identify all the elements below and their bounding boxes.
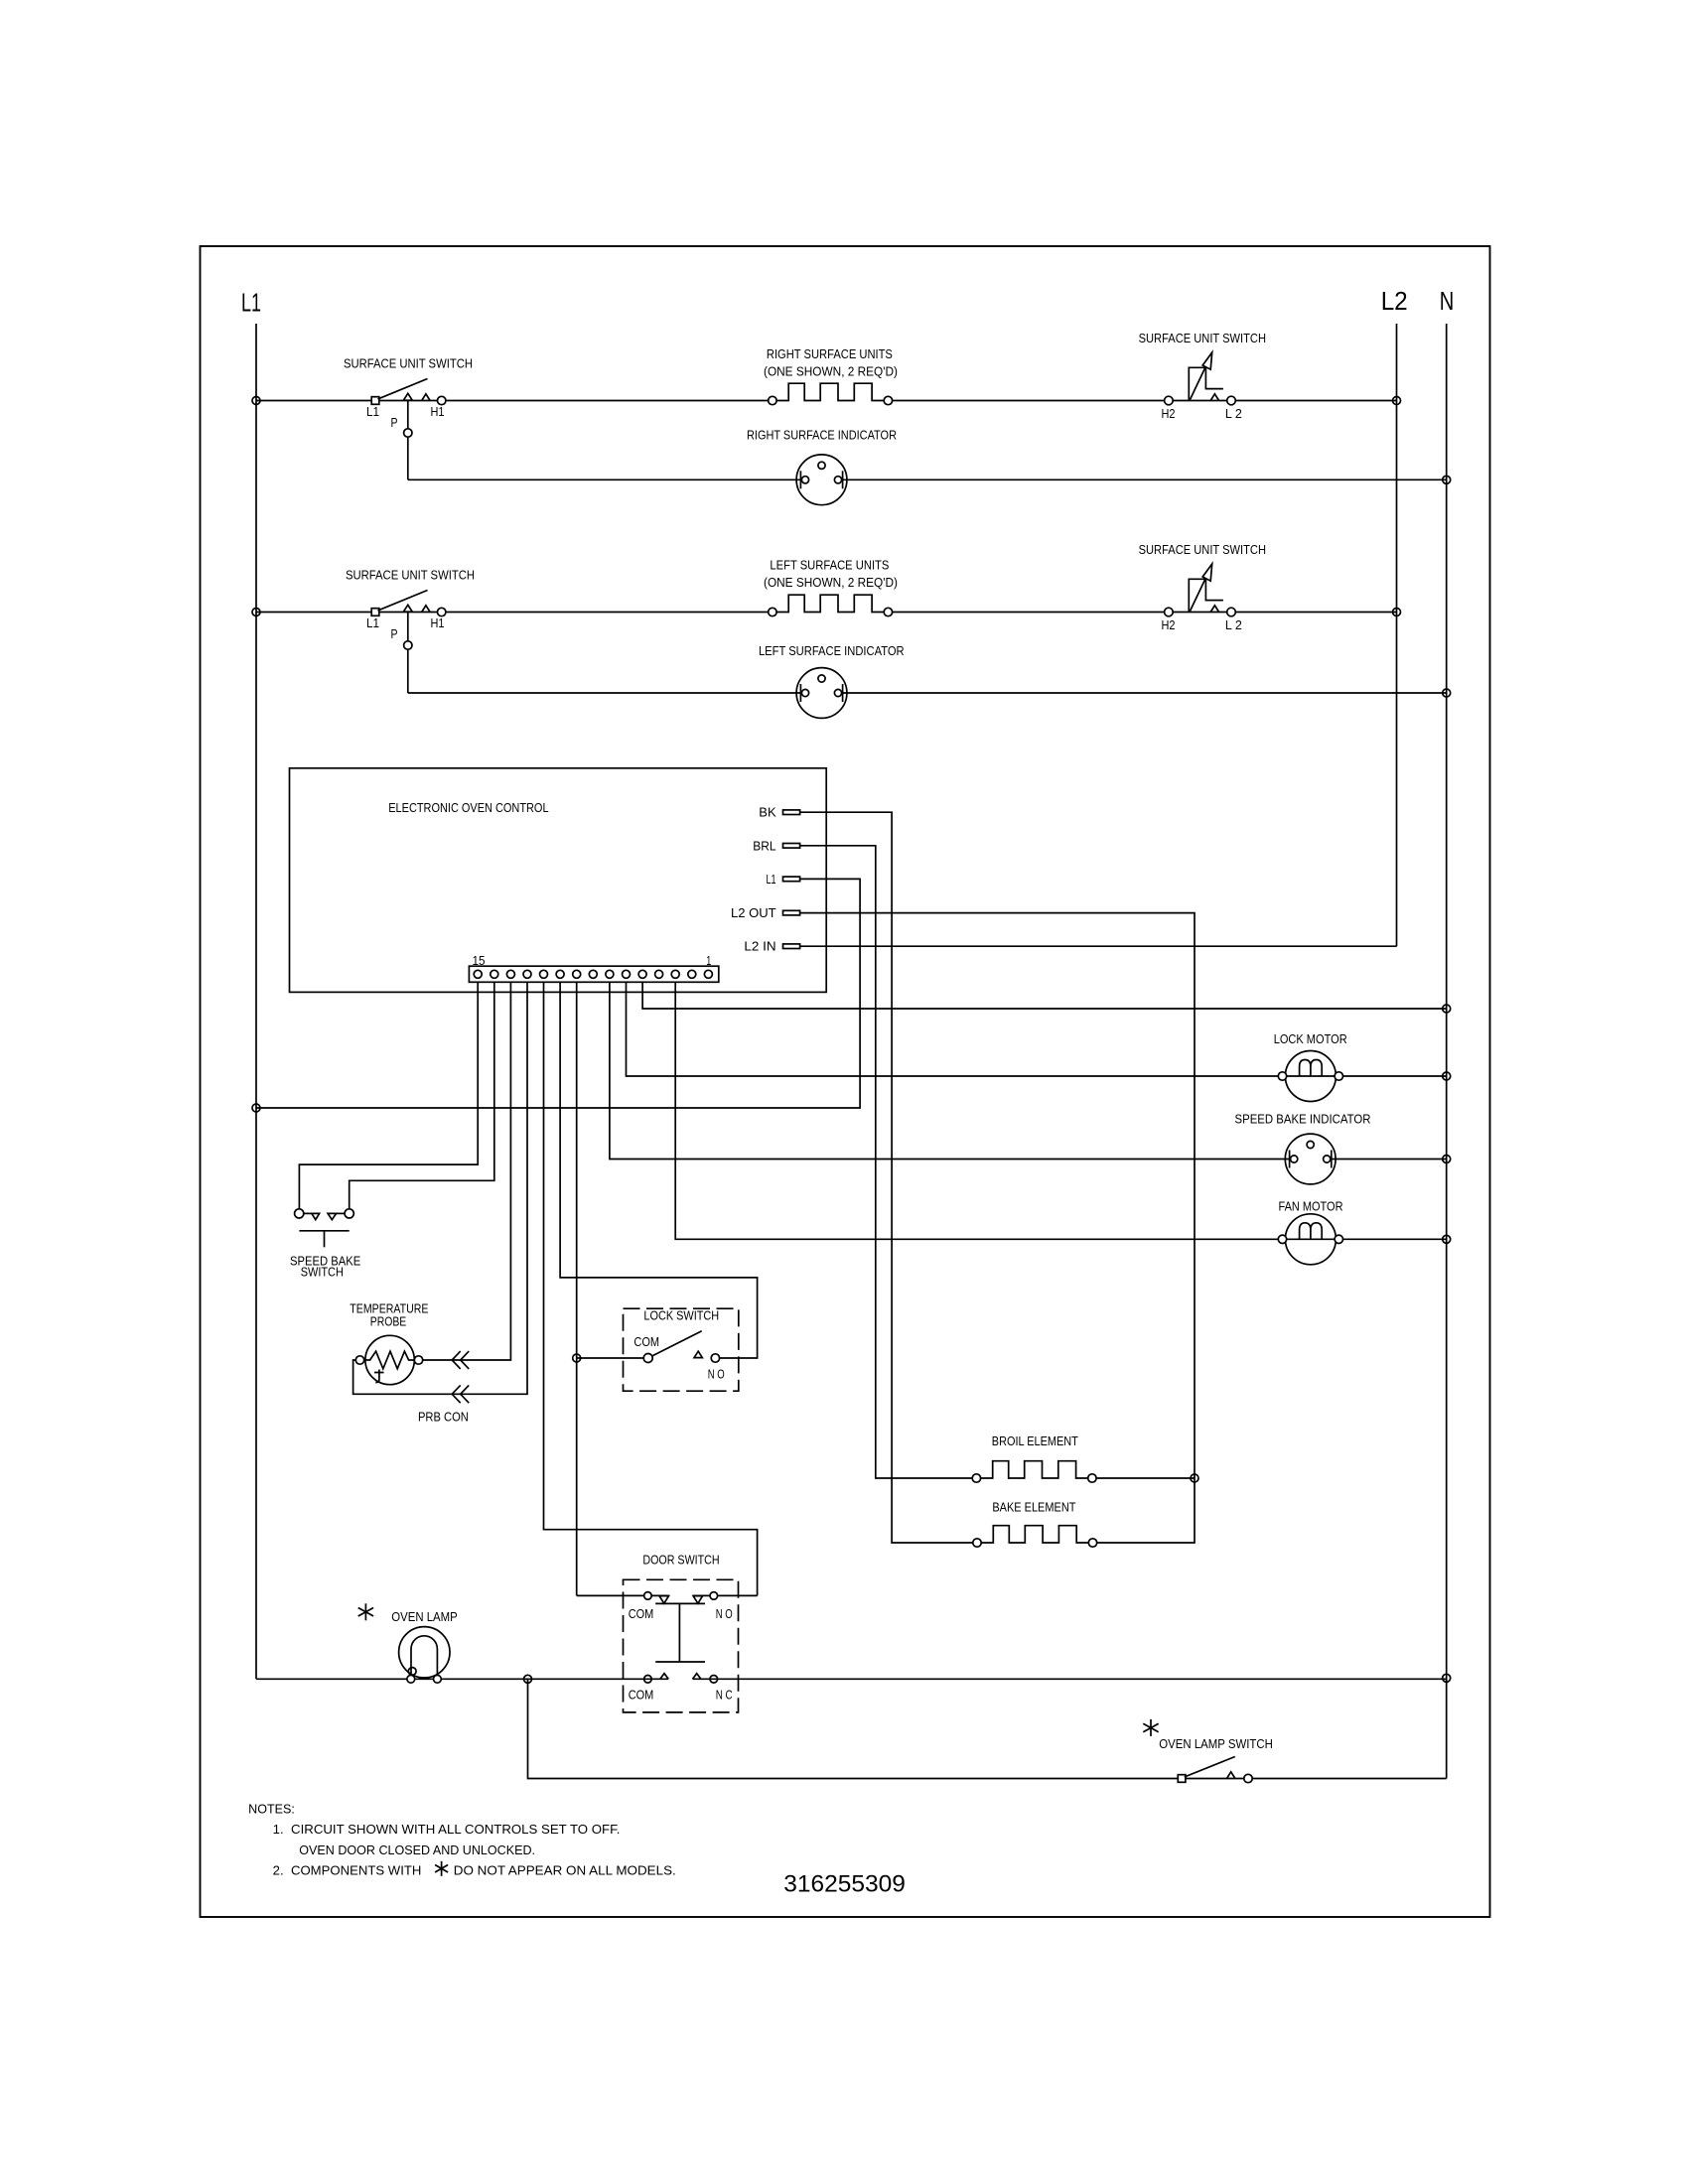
junction row2b-N xyxy=(1443,689,1451,697)
switch S5 speed bake switch terminals xyxy=(295,1209,304,1218)
svg-text:L2: L2 xyxy=(1381,286,1408,316)
wire row1b to indicator xyxy=(408,478,803,480)
svg-text:FAN MOTOR: FAN MOTOR xyxy=(1279,1200,1343,1214)
svg-text:RIGHT SURFACE INDICATOR: RIGHT SURFACE INDICATOR xyxy=(747,428,897,442)
asterisk oven lamp xyxy=(364,1603,366,1620)
resistor bake element xyxy=(981,1526,1088,1543)
svg-text:H1: H1 xyxy=(431,405,445,419)
svg-text:L2 OUT: L2 OUT xyxy=(731,906,776,920)
wire pin10 to lock switch NO xyxy=(560,982,758,1358)
switch S7 bottom contact carets xyxy=(660,1674,668,1680)
wire oven lamp row right xyxy=(693,1678,1447,1680)
junction row1b-N xyxy=(1443,476,1451,483)
terminal tick BRL xyxy=(783,844,800,849)
switch S7 NC terminal xyxy=(710,1676,718,1684)
junction speed bake indicator-N xyxy=(1443,1156,1451,1163)
page border frame xyxy=(201,246,1490,1917)
switch S6 blade xyxy=(652,1331,702,1356)
svg-text:L1: L1 xyxy=(767,873,776,887)
asterisk note 2 xyxy=(441,1861,443,1876)
svg-text:1. CIRCUIT SHOWN WITH ALL CON: 1. CIRCUIT SHOWN WITH ALL CONTROLS SET T… xyxy=(273,1823,621,1837)
lamp oven lamp body xyxy=(399,1627,450,1678)
terminal pilot circle row2 xyxy=(404,641,412,649)
wire row1 right segment xyxy=(888,400,1396,402)
svg-text:H1: H1 xyxy=(431,616,445,630)
svg-text:N O: N O xyxy=(708,1368,725,1382)
junction lamp row drop xyxy=(524,1675,532,1683)
wire L2 IN to L2 rail xyxy=(800,945,1397,947)
resistor left surface units element xyxy=(776,595,884,612)
svg-text:1: 1 xyxy=(706,954,711,968)
terminal probe left xyxy=(355,1356,363,1364)
svg-text:PRB CON: PRB CON xyxy=(418,1411,469,1425)
wire pin7 to speed bake indicator xyxy=(610,982,1291,1159)
switch S5 contacts xyxy=(304,1212,312,1214)
svg-text:L 2: L 2 xyxy=(1225,618,1242,632)
connector strip J1 xyxy=(469,966,718,982)
switch S3 surface unit switch (left units) xyxy=(371,609,379,616)
wire pin3 to fan motor xyxy=(675,982,1446,1239)
thermistor RT1 tee mark xyxy=(374,1370,384,1383)
wire speed bake indicator to N xyxy=(1331,1159,1447,1160)
svg-text:DO NOT APPEAR ON ALL MODELS.: DO NOT APPEAR ON ALL MODELS. xyxy=(454,1864,676,1878)
wire BRL to broil element left xyxy=(800,846,973,1478)
asterisk oven lamp switch xyxy=(1150,1719,1152,1736)
wire L2 OUT to elements right xyxy=(800,913,1195,1543)
wire L1 rail vertical xyxy=(255,324,257,1679)
terminal tick L2 IN xyxy=(783,944,800,949)
svg-text:L 2: L 2 xyxy=(1225,407,1242,421)
junction L1 rail tap xyxy=(252,1104,260,1112)
svg-text:COM: COM xyxy=(629,1607,654,1621)
svg-text:L1: L1 xyxy=(366,616,379,630)
wire pin5 to N rail xyxy=(642,982,1447,1009)
switch S7 door switch box xyxy=(624,1579,739,1712)
wire S1 pilot drop xyxy=(407,401,409,480)
junction lock motor-N xyxy=(1443,1072,1451,1080)
svg-text:15: 15 xyxy=(473,954,486,968)
svg-text:(ONE SHOWN, 2 REQ'D): (ONE SHOWN, 2 REQ'D) xyxy=(764,576,898,590)
wire pin13 to temperature probe xyxy=(423,982,511,1360)
junction row2-L2 xyxy=(1393,609,1401,616)
svg-text:COM: COM xyxy=(629,1688,654,1702)
svg-text:DOOR SWITCH: DOOR SWITCH xyxy=(642,1553,719,1567)
junction broil-L2OUT xyxy=(1191,1474,1198,1482)
svg-text:P: P xyxy=(391,627,398,641)
junction row2-L1 xyxy=(252,609,260,616)
svg-text:OVEN LAMP SWITCH: OVEN LAMP SWITCH xyxy=(1159,1737,1273,1751)
wire oven lamp switch row xyxy=(528,1679,1447,1778)
svg-text:LEFT SURFACE UNITS: LEFT SURFACE UNITS xyxy=(770,559,889,573)
wire oven lamp row left xyxy=(256,1678,668,1680)
junction row1-L2 xyxy=(1393,397,1401,405)
junction door row-N xyxy=(1443,1674,1451,1682)
junction fan motor-N xyxy=(1443,1235,1451,1243)
switch S2 surface unit switch (right, with arrow) xyxy=(1189,367,1223,400)
wire door top right segment xyxy=(693,1594,758,1596)
svg-text:L2 IN: L2 IN xyxy=(744,940,775,954)
svg-text:2. COMPONENTS WITH: 2. COMPONENTS WITH xyxy=(273,1864,422,1878)
svg-text:N: N xyxy=(1440,286,1455,316)
switch S7 top contact triangles xyxy=(659,1596,669,1604)
svg-text:BROIL ELEMENT: BROIL ELEMENT xyxy=(992,1434,1078,1448)
svg-text:SURFACE UNIT SWITCH: SURFACE UNIT SWITCH xyxy=(1139,332,1266,345)
wire pin6 to lock motor xyxy=(627,982,1447,1076)
junction pin9 lock tap xyxy=(573,1354,581,1362)
lamp oven lamp side circle xyxy=(408,1668,416,1676)
wire row2 left segment xyxy=(256,612,773,614)
terminal oven lamp right xyxy=(434,1675,442,1683)
wire lock COM feed xyxy=(577,1357,644,1359)
svg-text:H2: H2 xyxy=(1162,618,1176,632)
wire row2 right segment xyxy=(888,612,1396,614)
switch S1 surface unit switch (right units) xyxy=(371,397,379,405)
svg-text:L1: L1 xyxy=(366,405,379,419)
thermistor RT1 zigzag xyxy=(364,1351,415,1369)
svg-text:H2: H2 xyxy=(1162,407,1176,421)
switch S6 NO terminal xyxy=(711,1354,719,1362)
svg-text:SWITCH: SWITCH xyxy=(301,1266,344,1280)
svg-text:PROBE: PROBE xyxy=(370,1315,407,1329)
wire door top left segment xyxy=(577,1594,669,1596)
lamp speed bake indicator xyxy=(1285,1134,1336,1184)
svg-text:SPEED BAKE INDICATOR: SPEED BAKE INDICATOR xyxy=(1235,1113,1371,1127)
connector PRB CON upper chevrons xyxy=(452,1351,469,1369)
switch S5 actuator bar xyxy=(299,1230,349,1232)
wire pin11 to door switch NO xyxy=(544,982,758,1595)
svg-text:SURFACE UNIT SWITCH: SURFACE UNIT SWITCH xyxy=(346,569,475,583)
svg-text:NOTES:: NOTES: xyxy=(248,1802,295,1816)
svg-text:N O: N O xyxy=(716,1607,733,1621)
wire row1 left segment xyxy=(256,400,773,402)
wire L1 terminal to L1 rail xyxy=(256,879,860,1108)
lamp oven lamp filament xyxy=(411,1636,437,1677)
switch S7 NO terminal xyxy=(710,1592,718,1600)
switch S6 contact triangle xyxy=(694,1351,702,1357)
wire row2b indicator to N xyxy=(840,692,1447,694)
wire pin9 to door switch COM xyxy=(576,982,578,1595)
svg-text:RIGHT SURFACE UNITS: RIGHT SURFACE UNITS xyxy=(767,347,893,361)
connector J1 pin circles xyxy=(474,970,482,978)
svg-text:LOCK MOTOR: LOCK MOTOR xyxy=(1274,1032,1347,1046)
electronic oven control box U1 xyxy=(290,768,827,993)
connector PRB CON lower chevrons xyxy=(452,1385,469,1403)
switch S4 surface unit switch (right, with arrow) xyxy=(1189,579,1223,612)
terminal oven lamp left xyxy=(407,1675,415,1683)
lamp right surface indicator xyxy=(796,455,847,505)
switch S7 COM2 terminal xyxy=(644,1676,652,1684)
switch S8 oven lamp switch xyxy=(1178,1775,1186,1783)
wire pin12 to probe return xyxy=(353,982,527,1394)
wire row2b to indicator xyxy=(408,692,803,694)
motor M2 fan motor xyxy=(1285,1214,1336,1265)
svg-text:316255309: 316255309 xyxy=(783,1871,906,1898)
svg-text:L1: L1 xyxy=(241,288,261,318)
svg-text:COM: COM xyxy=(633,1335,659,1349)
svg-text:OVEN LAMP: OVEN LAMP xyxy=(391,1610,457,1624)
svg-text:N C: N C xyxy=(716,1688,733,1702)
junction row1-L1 xyxy=(252,397,260,405)
switch S7 COM1 terminal xyxy=(644,1592,652,1600)
lamp left surface indicator xyxy=(796,668,847,719)
junction pin5-N xyxy=(1443,1005,1451,1013)
terminal tick L1 xyxy=(783,877,800,882)
terminal tick L2 OUT xyxy=(783,910,800,915)
terminal probe right xyxy=(414,1356,422,1364)
wire L2 rail vertical xyxy=(1396,324,1398,946)
terminal pilot circle row1 xyxy=(404,429,412,437)
svg-text:SURFACE UNIT SWITCH: SURFACE UNIT SWITCH xyxy=(1139,543,1266,557)
svg-text:SURFACE UNIT SWITCH: SURFACE UNIT SWITCH xyxy=(344,357,473,371)
motor M1 lock motor xyxy=(1285,1051,1336,1102)
svg-text:LEFT SURFACE INDICATOR: LEFT SURFACE INDICATOR xyxy=(759,644,905,658)
svg-text:OVEN DOOR CLOSED AND UNLOCKED.: OVEN DOOR CLOSED AND UNLOCKED. xyxy=(299,1843,535,1857)
wire S3 pilot drop xyxy=(407,613,409,694)
wire pin14 to speed bake switch xyxy=(350,982,494,1209)
wire row1b indicator to N xyxy=(840,478,1447,480)
switch S6 lock switch box xyxy=(624,1308,739,1391)
svg-text:ELECTRONIC OVEN CONTROL: ELECTRONIC OVEN CONTROL xyxy=(388,801,548,815)
svg-text:P: P xyxy=(391,416,398,430)
wire broil right to L2OUT xyxy=(1097,1477,1195,1479)
wire BK to bake element left xyxy=(800,812,973,1543)
thermistor RT1 temperature probe body xyxy=(365,1335,414,1384)
wire pin15 to speed bake switch xyxy=(299,982,478,1209)
switch S6 COM terminal xyxy=(643,1354,652,1363)
svg-text:BAKE ELEMENT: BAKE ELEMENT xyxy=(992,1500,1075,1514)
svg-text:BK: BK xyxy=(759,806,776,820)
resistor right surface units element xyxy=(776,383,884,400)
svg-text:BRL: BRL xyxy=(753,839,775,853)
wire N rail vertical xyxy=(1446,324,1448,1779)
resistor broil element xyxy=(981,1461,1088,1478)
switch S7 plunger xyxy=(655,1602,705,1604)
svg-text:LOCK SWITCH: LOCK SWITCH xyxy=(643,1308,719,1322)
terminal tick BK xyxy=(783,810,800,815)
svg-text:(ONE SHOWN, 2 REQ'D): (ONE SHOWN, 2 REQ'D) xyxy=(764,364,898,378)
